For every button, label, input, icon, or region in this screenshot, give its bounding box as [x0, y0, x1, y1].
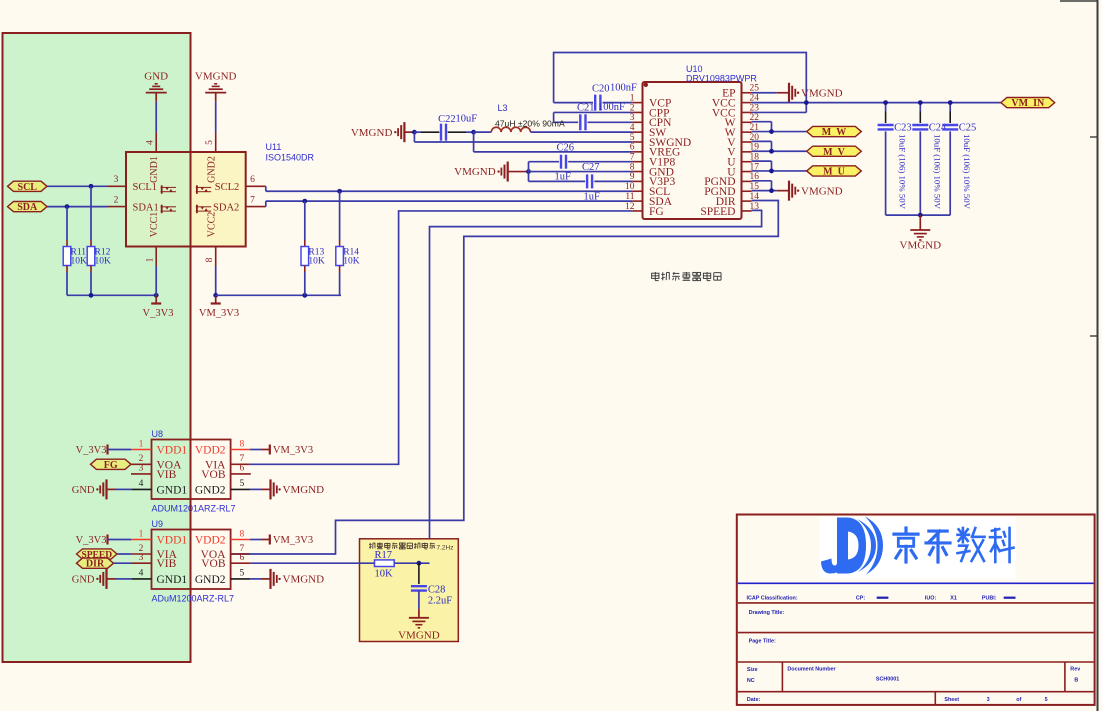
wire VCC top loop	[554, 53, 807, 103]
svg-text:R17: R17	[375, 550, 393, 561]
power port VM_3V3 below U11	[215, 295, 217, 303]
svg-text:DRV10983PWPR: DRV10983PWPR	[686, 74, 757, 84]
wire SDA2 net U11 to U10	[265, 201, 267, 207]
U10 pin 11 SDA	[632, 200, 642, 202]
svg-text:U10: U10	[686, 64, 703, 74]
green isolation region	[3, 33, 191, 662]
svg-text:ICAP Classification:: ICAP Classification:	[747, 595, 798, 601]
wire R11/R12 bottoms to V_3V3	[66, 272, 68, 295]
svg-text:VM_3V3: VM_3V3	[273, 445, 313, 456]
svg-text:1: 1	[139, 529, 144, 539]
svg-text:U11: U11	[266, 142, 282, 152]
U9 pin2 VIA + port SPEED	[77, 549, 118, 559]
svg-text:2: 2	[114, 195, 119, 205]
junction R14 top	[337, 189, 342, 194]
wire V pins to M_V	[752, 140, 772, 142]
U10 pin 22 W	[742, 121, 752, 123]
svg-text:VMGND: VMGND	[801, 185, 843, 197]
U9 pin3 VIB + port DIR	[77, 558, 114, 568]
svg-text:Drawing Title:: Drawing Title:	[749, 610, 785, 616]
svg-text:3: 3	[987, 697, 990, 703]
title block blue divider	[738, 582, 1094, 584]
svg-text:SPEED: SPEED	[700, 206, 735, 218]
U10 pin 20 V	[742, 141, 752, 143]
svg-text:SDA: SDA	[17, 202, 38, 213]
capacitor C28	[418, 563, 420, 584]
junction SDA/R11	[65, 204, 70, 209]
wire U11 pin1 to V_3V3 rail	[155, 266, 157, 295]
junction C25 top	[948, 100, 953, 105]
wire VM_3V3 rail to R13/R14 bottoms	[216, 294, 341, 296]
svg-text:M_V: M_V	[823, 147, 845, 158]
svg-text:FG: FG	[104, 460, 118, 471]
U10 pin 1 VCP	[632, 102, 642, 104]
chip U11 I2C isolator ISO1540DR	[126, 152, 191, 247]
svg-text:1: 1	[146, 257, 156, 262]
svg-text:VDD2: VDD2	[195, 445, 226, 457]
chip U9 digital isolator ADuM1200ARZ-RL7	[152, 530, 231, 590]
junction VCC	[804, 100, 809, 105]
U9 pin5 GND2 + power port VMGND	[231, 578, 251, 580]
U10 pin 21 W	[742, 131, 752, 133]
U8 pin6 VOB stub	[231, 473, 251, 475]
port M_V	[807, 146, 862, 156]
label motor driver circuit (Chinese)	[652, 272, 659, 281]
U8 pin3 VIB stub	[131, 473, 152, 475]
svg-text:VCC2: VCC2	[207, 212, 218, 238]
svg-text:VMGND: VMGND	[454, 166, 496, 178]
power port VMGND at PGND	[777, 190, 789, 192]
port SCL	[8, 181, 48, 191]
chip U8 digital isolator ADUM1201ARZ-RL7	[152, 440, 231, 500]
wire W pins to M_W	[752, 121, 772, 123]
svg-text:3: 3	[114, 175, 119, 185]
svg-text:GND1: GND1	[157, 574, 188, 586]
svg-text:V_3V3: V_3V3	[143, 308, 174, 319]
svg-text:4: 4	[139, 479, 144, 489]
svg-text:2.2uF: 2.2uF	[428, 596, 452, 607]
svg-text:PUBl:: PUBl:	[982, 595, 997, 601]
wire VCC pins to VM_IN	[752, 102, 807, 104]
svg-text:GND: GND	[144, 71, 168, 83]
svg-text:10K: 10K	[71, 257, 88, 267]
svg-text:VDD1: VDD1	[157, 535, 188, 547]
svg-text:10uF (106) 10% 50V: 10uF (106) 10% 50V	[932, 134, 942, 210]
inductor L3	[474, 131, 492, 133]
svg-text:VMGND: VMGND	[283, 574, 325, 586]
U10 pin 4 SW	[632, 131, 642, 133]
junction R17/C28/SPEED	[417, 561, 422, 566]
U10 pin 25 EP	[742, 92, 752, 94]
resistor R13	[304, 201, 306, 240]
svg-text:VMGND: VMGND	[283, 484, 325, 496]
svg-text:C28: C28	[428, 585, 446, 596]
svg-text:GND: GND	[72, 485, 95, 496]
wire SDA port to U11 pin2	[47, 206, 108, 208]
svg-text:11: 11	[625, 192, 634, 202]
svg-text:VMGND: VMGND	[351, 127, 393, 139]
title block border	[737, 515, 1095, 705]
svg-text:VM_IN: VM_IN	[1011, 98, 1045, 109]
svg-text:C26: C26	[557, 143, 575, 154]
low-pass filter box	[360, 539, 459, 642]
svg-text:1uF: 1uF	[584, 191, 601, 202]
resistor R14	[339, 191, 341, 240]
svg-text:X1: X1	[950, 595, 957, 601]
svg-text:Document Number: Document Number	[787, 667, 836, 673]
port VM_IN	[1001, 98, 1055, 108]
U9 pin7 VOA	[231, 553, 250, 555]
U8 pin5 GND2 + power port VMGND	[231, 488, 251, 490]
resistor R12	[90, 240, 92, 247]
svg-text:6: 6	[240, 553, 245, 563]
U10 pin 18 U	[742, 161, 752, 163]
junction U	[769, 169, 774, 174]
svg-text:8: 8	[240, 529, 245, 539]
U10 pin 9 V3P3	[632, 180, 642, 182]
capacitor C21	[554, 121, 579, 123]
svg-text:VDD1: VDD1	[157, 445, 188, 457]
resistor R11	[66, 240, 68, 247]
svg-text:NC: NC	[747, 678, 755, 684]
svg-text:FG: FG	[649, 206, 664, 218]
port M_W	[807, 126, 862, 136]
U10 pin 10 SCL	[632, 190, 642, 192]
svg-text:10K: 10K	[95, 257, 112, 267]
svg-text:VDD2: VDD2	[195, 535, 226, 547]
U10 pin 5 SWGND	[632, 141, 642, 143]
svg-text:Rev: Rev	[1070, 667, 1080, 673]
U10 pin 24 VCC	[742, 102, 752, 104]
junction PGND	[769, 188, 774, 193]
capacitor C22	[414, 131, 421, 133]
svg-text:VMGND: VMGND	[398, 630, 440, 642]
chip U10 motor driver DRV10983PWPR	[643, 82, 742, 219]
svg-text:10K: 10K	[343, 257, 360, 267]
U10 pin 23 VCC	[742, 111, 752, 113]
svg-text:10uF (106) 10% 50V: 10uF (106) 10% 50V	[962, 134, 972, 210]
svg-text:5: 5	[205, 140, 215, 145]
svg-text:SCH0001: SCH0001	[876, 677, 899, 683]
svg-text:GND2: GND2	[207, 156, 218, 183]
svg-text:4: 4	[139, 569, 144, 579]
svg-text:VOB: VOB	[201, 558, 226, 570]
svg-text:GND1: GND1	[149, 156, 160, 183]
port SDA	[8, 202, 48, 212]
svg-text:SCL2: SCL2	[215, 182, 240, 193]
logo text JD Digits (Chinese)	[894, 528, 1013, 562]
svg-text:C23: C23	[894, 123, 912, 134]
svg-text:7: 7	[240, 454, 245, 464]
svg-text:47uH ±20% 90mA: 47uH ±20% 90mA	[495, 118, 565, 128]
svg-text:DIR: DIR	[86, 559, 105, 570]
svg-text:3: 3	[139, 553, 144, 563]
svg-text:C20: C20	[592, 84, 610, 95]
svg-text:U8: U8	[152, 429, 164, 439]
svg-text:V_3V3: V_3V3	[76, 445, 107, 456]
port M_U	[807, 166, 862, 176]
U10 pin 19 V	[742, 151, 752, 153]
wire GND to U11 pin4	[155, 102, 157, 133]
svg-text:V_3V3: V_3V3	[76, 535, 107, 546]
wire DIR net U10 to U9 VOA	[231, 201, 779, 555]
svg-text:100nF: 100nF	[610, 83, 637, 94]
svg-text:1: 1	[139, 439, 144, 449]
junction GND/C26/C27	[526, 169, 531, 174]
U10 pin 13 SPEED	[742, 210, 752, 212]
svg-text:ISO1540DR: ISO1540DR	[266, 153, 315, 163]
capacitor C24	[919, 103, 921, 112]
junction SCL/R12	[89, 184, 94, 189]
wire U9 VOB to R17	[251, 562, 375, 564]
wire U pins to M_U	[752, 160, 772, 162]
svg-text:10uF (106) 10% 50V: 10uF (106) 10% 50V	[898, 134, 908, 210]
wire FG net U10 to U8 VIA	[250, 211, 633, 464]
power port V_3V3 below U11	[155, 295, 157, 303]
logo JDD monogram	[821, 517, 883, 575]
svg-text:7: 7	[250, 195, 255, 205]
svg-text:U9: U9	[152, 519, 164, 529]
svg-text:VCC1: VCC1	[149, 212, 160, 238]
svg-text:VIB: VIB	[157, 558, 177, 570]
wire SCL port to U11 pin3	[47, 185, 108, 187]
power port VMGND at C26/C27	[507, 162, 509, 182]
svg-text:VM_3V3: VM_3V3	[199, 308, 239, 319]
wire VMGND to U11 pin5	[215, 102, 217, 133]
capacitor C26	[529, 161, 560, 163]
wire VREG to L3 node	[473, 132, 475, 152]
svg-text:VMGND: VMGND	[195, 71, 237, 83]
power port VMGND at C22	[403, 122, 405, 142]
U10 pin 2 CPP	[632, 111, 642, 113]
wire U11 pin8 to VM_3V3 rail	[215, 266, 217, 295]
resistor R17	[375, 560, 395, 567]
svg-text:Page Title:: Page Title:	[749, 639, 776, 645]
svg-text:C27: C27	[582, 162, 600, 173]
wire CPP to C21	[554, 111, 633, 113]
svg-text:10K: 10K	[375, 569, 394, 580]
junction W	[769, 129, 774, 134]
U8 pin8 VDD2 + power port VM_3V3	[231, 449, 251, 451]
wire SPEED net U10 to filter	[419, 210, 762, 563]
U10 pin 17 U	[742, 171, 752, 173]
U10 pin 15 PGND	[742, 190, 752, 192]
svg-text:5: 5	[240, 569, 245, 579]
wire R17 to junction	[394, 562, 429, 564]
svg-text:Sheet: Sheet	[944, 697, 959, 703]
junction C24 bottom	[918, 213, 923, 218]
svg-text:6: 6	[240, 464, 245, 474]
svg-text:SDA1: SDA1	[133, 202, 159, 213]
capacitor C27	[528, 172, 530, 182]
svg-text:M_U: M_U	[823, 166, 845, 177]
U10 pin 8 GND	[632, 171, 642, 173]
U10 pin 14 DIR	[742, 200, 752, 202]
svg-text:C22: C22	[438, 114, 456, 125]
svg-text:C25: C25	[959, 123, 977, 134]
junction V	[769, 149, 774, 154]
power port VMGND below C24	[919, 215, 921, 230]
capacitor C23	[885, 103, 887, 112]
wire R11 pullup vertical	[66, 207, 68, 240]
svg-text:6: 6	[250, 175, 255, 185]
svg-text:C21: C21	[577, 103, 595, 114]
junction R13 top	[302, 199, 307, 204]
U10 pin 12 FG	[632, 210, 642, 212]
svg-text:ADUM1201ARZ-RL7: ADUM1201ARZ-RL7	[152, 504, 236, 514]
wire GND pin8	[529, 171, 633, 173]
U8 pin2 VOA + port FG	[91, 459, 132, 469]
svg-text:8: 8	[240, 439, 245, 449]
svg-text:M_W: M_W	[822, 127, 846, 138]
junction R12/V_3V3 rail	[89, 293, 94, 298]
wire SWGND to VMGND node	[413, 132, 415, 142]
svg-text:5: 5	[240, 479, 245, 489]
svg-text:GND1: GND1	[157, 484, 188, 496]
U10 pin 3 CPN	[632, 121, 642, 123]
wire PGND pins	[752, 180, 772, 182]
svg-text:5: 5	[1045, 697, 1048, 703]
junction VMGND/C22/SWGND	[412, 130, 417, 135]
capacitor C20	[554, 102, 593, 104]
svg-text:8: 8	[205, 257, 215, 262]
svg-text:10uF: 10uF	[456, 113, 478, 124]
junction C23 top	[883, 100, 888, 105]
svg-text:3: 3	[139, 464, 144, 474]
svg-text:of: of	[1016, 697, 1021, 703]
U10 pin 7 V1P8	[632, 161, 642, 163]
junction R13 bottom	[302, 293, 307, 298]
svg-text:B: B	[1074, 677, 1078, 683]
U10 pin 16 PGND	[742, 180, 752, 182]
U8 pin7 VIA	[231, 463, 250, 465]
svg-text:VOB: VOB	[201, 469, 226, 481]
svg-text:GND2: GND2	[195, 574, 226, 586]
junction VM_3V3 rail	[213, 293, 218, 298]
power port VMGND in filter	[418, 609, 420, 618]
wire SCL2 net U11 to U10	[265, 186, 267, 191]
svg-text:GND2: GND2	[195, 484, 226, 496]
svg-text:CP:: CP:	[856, 595, 865, 601]
svg-text:10K: 10K	[308, 257, 325, 267]
svg-text:SCL: SCL	[18, 182, 38, 193]
svg-text:L3: L3	[498, 103, 508, 113]
wire C23-C25 bottoms	[886, 214, 951, 216]
logo band	[820, 517, 1016, 579]
U10 pin 6 VREG	[632, 151, 642, 153]
svg-text:VIB: VIB	[157, 469, 177, 481]
U9 pin6 VOB	[231, 562, 251, 564]
svg-text:ADuM1200ARZ-RL7: ADuM1200ARZ-RL7	[152, 594, 235, 604]
svg-text:10: 10	[625, 182, 635, 192]
svg-text:2: 2	[139, 454, 144, 464]
svg-text:SDA2: SDA2	[213, 202, 239, 213]
junction C24 top	[918, 100, 923, 105]
svg-text:GND: GND	[72, 575, 95, 586]
power port VMGND at EP	[752, 92, 777, 94]
svg-text:VMGND: VMGND	[801, 87, 843, 99]
svg-text:4: 4	[146, 140, 156, 145]
svg-text:VM_3V3: VM_3V3	[273, 535, 313, 546]
capacitor C25	[949, 103, 951, 112]
wire R12 pullup vertical	[90, 186, 92, 240]
svg-text:IUO:: IUO:	[925, 595, 937, 601]
svg-text:VMGND: VMGND	[900, 240, 942, 252]
svg-text:7.2Hz: 7.2Hz	[437, 545, 454, 552]
svg-text:Date:: Date:	[747, 697, 761, 703]
svg-text:100nF: 100nF	[598, 102, 625, 113]
junction C22/L3/VREG	[471, 130, 476, 135]
U9 pin8 VDD2 + power port VM_3V3	[231, 539, 251, 541]
label low-pass filter cutoff 7.2Hz (Chinese)	[369, 543, 375, 549]
svg-text:Size: Size	[747, 667, 758, 673]
